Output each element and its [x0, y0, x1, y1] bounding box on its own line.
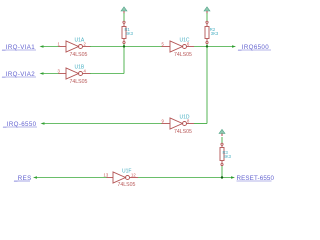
junction node row1/R1	[123, 45, 125, 47]
svg-text:13: 13	[104, 173, 109, 178]
svg-text:U1C: U1C	[180, 38, 190, 44]
svg-text:74LS05: 74LS05	[70, 79, 88, 85]
op-amp U1B inverter	[58, 65, 91, 86]
op-amp U1A inverter	[58, 38, 91, 59]
svg-text:3K3: 3K3	[126, 31, 134, 36]
wire U1B out to vertical	[90, 73, 124, 75]
resistor R3	[220, 143, 232, 165]
wire R2 bottom to row1	[206, 44, 208, 47]
svg-text:12: 12	[131, 173, 136, 178]
junction node row1/R2	[206, 45, 208, 47]
svg-text:U1A: U1A	[75, 38, 85, 44]
svg-text:U1B: U1B	[75, 65, 85, 71]
power VCC P1	[121, 7, 127, 14]
arrowhead row1 right	[232, 45, 236, 48]
wire row2 label to U1B	[43, 73, 60, 75]
resistor R2	[205, 21, 219, 43]
svg-text:U1D: U1D	[180, 115, 190, 121]
power VCC P3	[219, 129, 225, 136]
wire U1C out to label	[194, 46, 234, 48]
op-amp U1C inverter	[162, 38, 195, 59]
junction node row4/R3	[221, 176, 223, 178]
svg-text:74LS05: 74LS05	[70, 52, 88, 58]
arrowhead row2 left	[40, 72, 44, 75]
svg-text:74LS05: 74LS05	[118, 182, 136, 188]
label -IRQ-VIA1	[1, 44, 36, 51]
wire vertical row2 up to row1	[123, 47, 125, 74]
wire U1F out to label	[138, 177, 232, 179]
svg-text:74LS05: 74LS05	[174, 129, 192, 135]
wire from VCC P2 to R2	[206, 13, 208, 21]
wire R3 bottom to row4	[221, 166, 223, 178]
label IRQ-16550	[2, 121, 37, 128]
arrowhead row4 right	[231, 176, 235, 179]
wire U1D out to vertical	[194, 123, 207, 125]
svg-text:74LS05: 74LS05	[174, 52, 192, 58]
op-amp U1D inverter	[162, 115, 195, 136]
wire R1 bottom to row1	[123, 44, 125, 47]
op-amp U1F inverter	[104, 169, 139, 189]
label -IRQ-VIA2	[1, 71, 36, 78]
wire row3 label to U1D	[44, 123, 163, 125]
wire from VCC P3 to R3	[221, 137, 223, 143]
arrowhead row3 left	[41, 122, 45, 125]
wire vertical row3 up to row1	[206, 47, 208, 124]
power VCC P2	[204, 7, 210, 14]
label -RES	[13, 175, 32, 182]
arrowhead row4 left	[33, 176, 37, 179]
svg-text:U1F: U1F	[122, 169, 131, 175]
arrowhead row1 left	[40, 45, 44, 48]
svg-text:3K3: 3K3	[224, 154, 232, 159]
label -IRQ6500	[237, 44, 271, 51]
label RESET-6550	[237, 175, 275, 182]
svg-text:3K3: 3K3	[211, 31, 219, 36]
wire row1 label to U1A	[43, 46, 60, 48]
wire from VCC P1 to R1	[123, 13, 125, 21]
wire row4 label to U1F	[36, 177, 107, 179]
wire U1A out to U1C in	[90, 46, 162, 48]
resistor R1	[122, 21, 134, 43]
